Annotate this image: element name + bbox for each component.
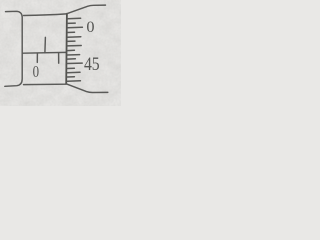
tick t5 long bbox=[67, 36, 81, 39]
tick t10 short bbox=[67, 58, 75, 60]
tick t15 long bbox=[67, 80, 80, 82]
sleeve top edge bbox=[24, 14, 67, 16]
tick t9 long bbox=[67, 54, 79, 56]
svg-text:0: 0 bbox=[33, 63, 39, 81]
sleeve half-mm tick below datum (right) bbox=[58, 53, 60, 63]
thimble bottom cone bbox=[67, 84, 108, 93]
tick t6 short bbox=[67, 40, 75, 42]
tick t1 long bbox=[67, 17, 80, 20]
tick t12 short bbox=[67, 67, 74, 69]
tick t4 short bbox=[67, 31, 74, 33]
thimble top cone bbox=[67, 5, 105, 13]
sleeve bottom edge bbox=[24, 83, 67, 85]
tick t3 long (0 label) bbox=[67, 26, 82, 29]
tick t2 short bbox=[67, 22, 75, 24]
thimble ticks bbox=[67, 18, 82, 81]
tick t7 long bbox=[67, 45, 81, 47]
tick t14 short bbox=[67, 76, 74, 78]
thimble edge vertical bbox=[65, 14, 68, 84]
tick t8 short bbox=[67, 49, 74, 51]
svg-text:45: 45 bbox=[84, 54, 100, 74]
paper background bbox=[0, 0, 121, 106]
datum line bbox=[23, 51, 66, 54]
sleeve left outline (stub, corner, vertical, corner, stub) bbox=[5, 11, 22, 86]
sleeve mm tick above datum bbox=[44, 37, 47, 52]
tick t11 long (45 label) bbox=[67, 62, 82, 64]
sleeve half-mm tick below datum (left) bbox=[36, 53, 38, 62]
tick t13 long bbox=[67, 71, 80, 73]
svg-text:0: 0 bbox=[86, 17, 94, 36]
